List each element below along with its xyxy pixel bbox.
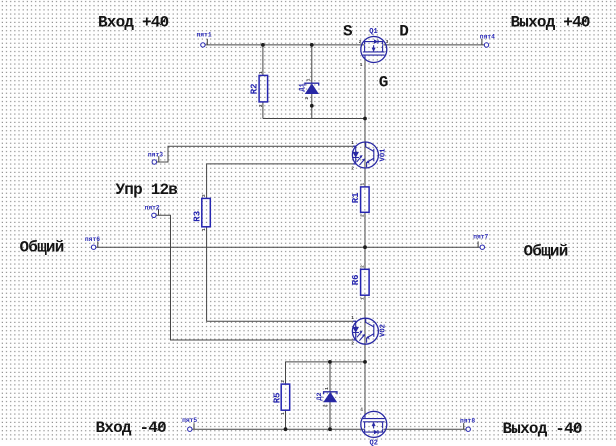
channel line of Q2 — [363, 421, 385, 423]
svg-text:Упр 12в: Упр 12в — [116, 181, 178, 199]
wire D2 bottom lead — [329, 401, 331, 430]
node D2 top junction — [328, 360, 332, 364]
pad пят1 — [201, 43, 205, 47]
svg-text:G: G — [379, 74, 388, 92]
top body-diode line of Q1 — [365, 42, 375, 45]
svg-text:3: 3 — [386, 39, 389, 45]
svg-text:2: 2 — [360, 265, 366, 268]
resistor R6 — [361, 269, 370, 295]
source contact bar of Q2 — [364, 422, 366, 428]
pad пят7 — [480, 245, 484, 249]
svg-text:1: 1 — [351, 140, 354, 146]
drain contact bar of Q1 — [382, 45, 384, 51]
diode Д2 — [324, 392, 337, 402]
node Q2 gate junction — [363, 360, 367, 364]
svg-text:VO1: VO1 — [380, 148, 388, 162]
svg-text:R1: R1 — [351, 192, 361, 203]
svg-text:1: 1 — [280, 412, 286, 415]
node D1 top junction — [310, 43, 314, 47]
svg-text:2: 2 — [201, 194, 207, 197]
wire R2 bottom lead — [262, 102, 264, 119]
gate lead of Q1 — [364, 55, 366, 59]
svg-text:Общий: Общий — [20, 239, 64, 257]
pin 1 tick of пят5 — [193, 423, 195, 429]
wire R3 top to VO1 cathode — [207, 164, 356, 199]
svg-text:VO2: VO2 — [380, 324, 388, 337]
pad пят5 — [188, 427, 192, 431]
pad пят2 — [152, 213, 156, 217]
bottom body-diode line of Q2 — [365, 429, 375, 432]
svg-text:Q2: Q2 — [370, 440, 378, 446]
svg-text:1: 1 — [324, 387, 330, 390]
wire Q2 drain to пят8 — [384, 428, 466, 430]
svg-text:2: 2 — [323, 404, 329, 407]
svg-text:R2: R2 — [250, 83, 260, 94]
middle contact bar with substrate arrow of Q1 — [373, 45, 375, 49]
svg-text:Вход -40: Вход -40 — [96, 419, 167, 437]
light arrows of VO2 — [357, 332, 362, 338]
svg-text:R6: R6 — [351, 274, 361, 285]
light arrows of VO1 — [357, 156, 362, 162]
svg-text:2: 2 — [351, 165, 354, 171]
svg-text:Q1: Q1 — [369, 28, 377, 36]
svg-text:Вход +40: Вход +40 — [98, 14, 169, 32]
slashed zero marks of CAD font — [158, 18, 588, 432]
wire Общий rail пят6 to пят7 — [96, 246, 480, 248]
resistor R3 — [202, 198, 211, 226]
wire R1 bottom to R6 top through center node — [364, 213, 366, 270]
wire Q1 gate rail down through VO1 to R1 — [364, 58, 366, 187]
pin 1 tick of пят3 — [158, 156, 160, 162]
diode Д1 — [305, 83, 319, 94]
wire bottom rail пят5 to Q2 source — [192, 428, 364, 430]
svg-text:2: 2 — [304, 97, 310, 100]
svg-text:Выход +40: Выход +40 — [511, 14, 590, 32]
svg-text:Д2: Д2 — [316, 392, 324, 400]
svg-text:1: 1 — [360, 62, 363, 68]
pin 1 tick of пят8 — [463, 423, 465, 429]
wire R2 top lead — [262, 45, 264, 76]
slash of 0 in Выход -40 — [573, 424, 579, 432]
pin 1 tick of пят7 — [477, 241, 479, 247]
wire Q1 drain to пят4 — [384, 44, 485, 46]
phototransistor of VO2 — [366, 318, 374, 327]
svg-text:1: 1 — [201, 228, 207, 231]
pad пят3 — [152, 160, 156, 164]
node R2 top junction — [261, 43, 265, 47]
middle contact bar with substrate arrow of Q2 — [373, 425, 375, 429]
pin 1 tick of пят4 — [481, 39, 483, 45]
wire R3 bottom to VO2 anode — [207, 227, 356, 321]
pad пят4 — [484, 43, 488, 47]
svg-text:1: 1 — [258, 71, 264, 74]
svg-text:Выход -40: Выход -40 — [503, 420, 582, 438]
transistor Q1 — [361, 37, 387, 63]
svg-text:1: 1 — [361, 407, 364, 413]
optocoupler VO1 — [352, 142, 378, 168]
pad пят8 — [466, 427, 470, 431]
body diode of Q1 — [374, 40, 377, 43]
pad пят6 — [91, 245, 95, 249]
pin 1 tick of пят1 — [206, 39, 208, 45]
wire R5 bottom lead — [285, 410, 287, 429]
LED of VO1 — [353, 146, 356, 152]
source contact bar of Q1 — [364, 45, 366, 51]
svg-text:пят1: пят1 — [197, 32, 212, 39]
node center rail junction — [363, 245, 367, 249]
svg-text:1: 1 — [351, 315, 354, 321]
svg-text:Д1: Д1 — [299, 83, 307, 91]
wire top from пят1 to Q1 source — [205, 44, 364, 46]
svg-text:1: 1 — [360, 183, 366, 186]
svg-text:2: 2 — [351, 340, 354, 346]
wire VO2 emitter junction to R5 top — [286, 362, 366, 384]
wire пят3 to VO1 anode — [157, 146, 356, 162]
wire horizontal R2/D1 bottoms to gate rail — [263, 118, 365, 120]
transistor Q2 — [361, 411, 387, 437]
svg-text:2: 2 — [359, 39, 362, 45]
svg-text:2: 2 — [280, 380, 286, 383]
wire пят2 to VO2 cathode — [156, 215, 356, 340]
slash of 0 in Выход +40 — [581, 18, 587, 26]
svg-text:пят8: пят8 — [460, 417, 475, 424]
optocoupler VO2 — [352, 318, 378, 344]
drain contact bar of Q2 — [382, 422, 384, 428]
svg-text:2: 2 — [360, 214, 366, 217]
wire R6 bottom through VO2 down to Q2 gate — [364, 295, 366, 417]
svg-text:пят2: пят2 — [145, 205, 160, 212]
svg-text:1: 1 — [360, 297, 366, 300]
slash of 0 in Вход +40 — [160, 18, 166, 26]
resistor R2 — [259, 75, 268, 102]
node gate rail T junction — [363, 117, 367, 121]
wire D1 bottom lead — [311, 94, 313, 119]
gate plate of Q1 — [363, 54, 385, 56]
gate plate of Q2 — [363, 418, 385, 420]
svg-text:1: 1 — [305, 78, 311, 81]
svg-text:пят3: пят3 — [148, 152, 163, 159]
svg-text:пят7: пят7 — [473, 234, 488, 241]
svg-text:D: D — [399, 22, 408, 40]
node D1 anode junction — [310, 104, 314, 108]
resistor R5 — [281, 384, 290, 410]
svg-text:Общий: Общий — [524, 243, 568, 261]
pin 1 tick of пят6 — [97, 241, 99, 247]
svg-text:R3: R3 — [192, 211, 202, 222]
pin 1 tick of пят2 — [158, 209, 160, 215]
channel line of Q1 — [363, 51, 385, 53]
svg-text:S: S — [343, 22, 353, 40]
wire D1 top lead — [311, 45, 313, 83]
node D2 bottom junction — [328, 427, 332, 431]
resistor R1 — [361, 187, 370, 212]
node R5 bottom junction — [284, 427, 288, 431]
svg-text:пят5: пят5 — [182, 417, 197, 424]
wire D2 top lead — [329, 362, 331, 392]
svg-text:R5: R5 — [273, 392, 283, 403]
phototransistor of VO1 — [366, 143, 374, 152]
body diode of Q2 — [374, 430, 377, 433]
LED of VO2 — [353, 321, 356, 327]
slash of 0 in Вход -40 — [158, 423, 164, 431]
svg-text:2: 2 — [258, 104, 264, 107]
gate lead of Q2 — [364, 414, 366, 418]
